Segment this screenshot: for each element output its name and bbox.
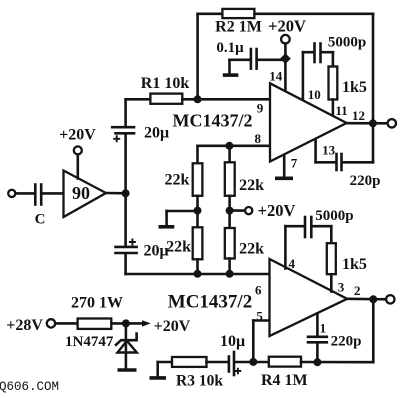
svg-text:1: 1	[320, 321, 327, 336]
svg-text:R3 10k: R3 10k	[176, 373, 223, 390]
svg-text:5000p: 5000p	[315, 208, 353, 224]
svg-text:+20V: +20V	[154, 318, 191, 335]
svg-text:R1 10k: R1 10k	[141, 75, 190, 92]
svg-text:3: 3	[338, 280, 345, 295]
svg-text:9: 9	[257, 101, 264, 116]
svg-text:10: 10	[308, 87, 321, 102]
svg-text:R4 1M: R4 1M	[261, 372, 308, 389]
svg-text:+20V: +20V	[59, 127, 96, 144]
svg-text:14: 14	[269, 69, 283, 84]
svg-text:22k: 22k	[165, 172, 190, 189]
svg-text:220p: 220p	[350, 173, 381, 189]
svg-text:2: 2	[354, 283, 361, 298]
svg-text:20μ: 20μ	[143, 243, 168, 260]
svg-text:22k: 22k	[166, 239, 191, 256]
svg-text:5000p: 5000p	[328, 34, 366, 50]
svg-text:C: C	[35, 212, 46, 228]
svg-text:20μ: 20μ	[144, 125, 169, 142]
svg-text:22k: 22k	[239, 177, 264, 194]
svg-text:10μ: 10μ	[220, 333, 245, 350]
svg-text:+20V: +20V	[268, 17, 306, 36]
svg-text:+28V: +28V	[6, 317, 43, 334]
svg-text:Q606.COM: Q606.COM	[0, 380, 59, 394]
svg-text:270 1W: 270 1W	[71, 295, 123, 312]
svg-text:R2 1M: R2 1M	[215, 19, 262, 36]
svg-text:220p: 220p	[331, 334, 362, 350]
svg-text:8: 8	[254, 131, 261, 146]
svg-text:6: 6	[255, 283, 262, 298]
svg-text:22k: 22k	[239, 241, 264, 258]
svg-text:13: 13	[322, 143, 336, 158]
svg-text:+20V: +20V	[258, 201, 296, 220]
svg-text:12: 12	[352, 108, 365, 123]
svg-text:4: 4	[289, 256, 296, 271]
svg-text:7: 7	[291, 156, 298, 171]
svg-text:MC1437/2: MC1437/2	[168, 292, 252, 313]
svg-text:0.1μ: 0.1μ	[216, 40, 244, 56]
svg-text:1k5: 1k5	[342, 256, 367, 273]
svg-text:11: 11	[335, 103, 347, 118]
svg-text:MC1437/2: MC1437/2	[173, 111, 253, 131]
svg-text:90: 90	[72, 183, 90, 203]
svg-text:1N4747: 1N4747	[65, 334, 114, 350]
svg-text:1k5: 1k5	[342, 79, 367, 96]
